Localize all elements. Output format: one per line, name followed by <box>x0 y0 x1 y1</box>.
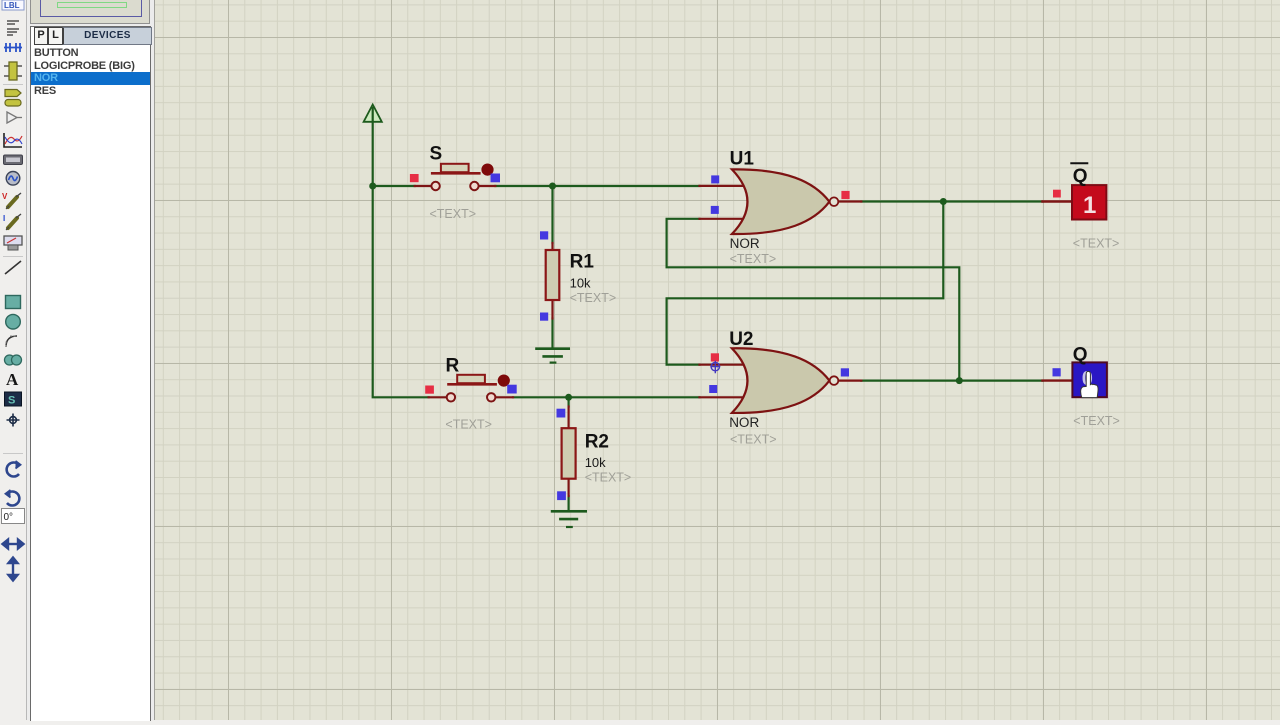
left icon toolbar <box>0 0 27 720</box>
device list <box>31 47 150 97</box>
icon rotate cw <box>7 461 21 476</box>
ground below R2 <box>552 511 586 527</box>
logic probe Qbar <box>1043 185 1107 219</box>
Q blue select square <box>1053 368 1061 376</box>
icon voltage probe <box>2 192 21 209</box>
junction U1 output <box>940 198 947 205</box>
U2 origin marker <box>711 362 720 373</box>
svg-text:10k: 10k <box>585 455 606 470</box>
icon tape recorder <box>4 155 23 165</box>
icon label tool LBL <box>2 0 24 10</box>
icon 2d box <box>6 296 21 309</box>
wire R1 top drop <box>551 186 553 243</box>
junction U2 output <box>956 377 963 384</box>
left column <box>27 0 154 720</box>
svg-text:<TEXT>: <TEXT> <box>430 207 477 221</box>
icon wire label <box>4 43 22 52</box>
icon component <box>4 62 22 80</box>
svg-text:R1: R1 <box>570 252 595 273</box>
svg-text:<TEXT>: <TEXT> <box>730 252 777 266</box>
wire feedback U1.out to U2.in1 <box>667 202 944 365</box>
wire R2 bottom to ground <box>567 496 569 510</box>
svg-text:<TEXT>: <TEXT> <box>570 291 617 305</box>
devices panel <box>30 26 151 721</box>
icon junction pills <box>5 90 21 107</box>
power symbol <box>364 105 382 122</box>
junction R row / R2 <box>565 394 572 401</box>
separator <box>3 453 23 455</box>
R red select square <box>425 386 434 394</box>
icon 2d line <box>5 261 21 274</box>
resistor R2 <box>562 407 576 497</box>
icon 2d arc <box>6 336 17 347</box>
separator <box>3 84 23 86</box>
separator <box>3 256 23 258</box>
U2 red select square (input 1) <box>711 353 719 361</box>
NOR gate U1 <box>700 169 862 234</box>
svg-text:<TEXT>: <TEXT> <box>445 418 492 432</box>
button S <box>415 164 496 190</box>
wire U2 output to probe <box>861 380 1042 382</box>
icon text script <box>7 21 19 35</box>
wire U1 output to probe <box>861 200 1042 202</box>
U1 blue select squares (inputs) <box>711 175 719 183</box>
angle box 0 <box>2 509 25 524</box>
junction S row / R1 <box>549 183 556 190</box>
icon gate/part <box>7 112 22 123</box>
DEVICES header <box>62 27 152 45</box>
svg-text:1: 1 <box>1083 192 1096 219</box>
wire S row left <box>373 185 415 187</box>
icon graph <box>4 133 22 147</box>
U2 blue select squares <box>709 385 717 393</box>
wire R1 bottom to ground <box>551 319 553 348</box>
svg-text:Q: Q <box>1073 345 1088 366</box>
S blue select square <box>491 174 501 183</box>
logic probe Q <box>1043 362 1107 397</box>
icon 2d closed path <box>5 355 22 365</box>
icon generator <box>6 172 20 186</box>
wire power rail vertical + R row left <box>373 108 429 397</box>
U1 red select square (output) <box>841 191 849 199</box>
wire R row mid to U2 <box>513 396 700 398</box>
R2 blue select squares <box>557 409 566 418</box>
icon mirror horizontal <box>3 540 24 549</box>
R blue select square <box>507 385 517 394</box>
icon mirror vertical <box>9 558 18 581</box>
P button <box>34 27 48 45</box>
Qbar red select square <box>1053 190 1061 198</box>
svg-text:<TEXT>: <TEXT> <box>585 471 632 485</box>
L button <box>48 27 63 45</box>
R1 blue select squares <box>540 231 548 239</box>
icon current probe <box>3 214 21 230</box>
svg-text:R: R <box>446 356 460 377</box>
wire R2 top drop <box>567 397 569 406</box>
icon instrument <box>4 236 22 250</box>
icon 2d marker <box>7 414 20 427</box>
svg-text:<TEXT>: <TEXT> <box>1073 237 1120 251</box>
ground below R1 <box>537 349 569 363</box>
icon 2d symbol <box>5 392 22 407</box>
overview window <box>30 0 150 24</box>
svg-text:10k: 10k <box>570 276 591 291</box>
svg-text:<TEXT>: <TEXT> <box>730 433 777 447</box>
svg-text:R2: R2 <box>585 432 609 453</box>
icon 2d circle <box>6 314 21 329</box>
wire feedback U2.out to U1.in2 <box>667 219 960 381</box>
mouse hand cursor <box>1081 371 1098 397</box>
resistor R1 <box>546 243 560 319</box>
NOR gate U2 <box>700 348 862 413</box>
svg-text:U2: U2 <box>729 329 753 350</box>
svg-text:Q: Q <box>1073 166 1088 187</box>
junction S row / power rail <box>369 183 376 190</box>
svg-text:U1: U1 <box>730 149 755 170</box>
svg-text:S: S <box>430 144 443 165</box>
svg-text:NOR: NOR <box>729 415 759 430</box>
svg-text:<TEXT>: <TEXT> <box>1073 414 1120 428</box>
icon rotate ccw <box>6 490 20 506</box>
S red select square <box>410 174 419 182</box>
svg-text:NOR: NOR <box>730 236 760 251</box>
wire S row right to U1 <box>495 185 699 187</box>
button R <box>429 375 513 402</box>
